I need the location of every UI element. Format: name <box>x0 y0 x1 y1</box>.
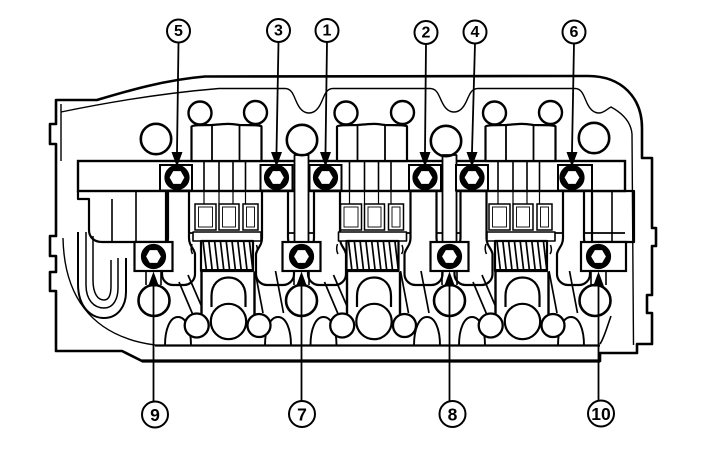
svg-text:3: 3 <box>274 23 283 40</box>
svg-text:6: 6 <box>570 24 579 41</box>
svg-text:2: 2 <box>422 25 431 42</box>
svg-text:9: 9 <box>150 405 160 425</box>
svg-text:7: 7 <box>297 405 307 425</box>
svg-text:1: 1 <box>323 23 332 40</box>
svg-text:4: 4 <box>471 24 480 41</box>
svg-text:8: 8 <box>448 405 458 425</box>
svg-text:10: 10 <box>591 404 611 424</box>
svg-text:5: 5 <box>174 23 183 40</box>
